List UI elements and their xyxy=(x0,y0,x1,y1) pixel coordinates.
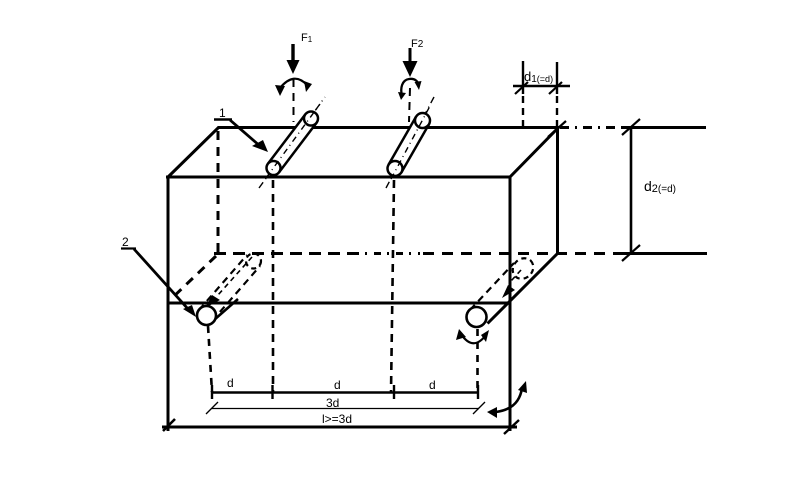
3d slash right xyxy=(473,402,485,414)
F1 rotation arc xyxy=(275,79,312,96)
slash arrow d1 right xyxy=(549,82,562,94)
label d1(=d) xyxy=(524,69,553,85)
dimension 3d line xyxy=(212,408,479,410)
d row tick 3 xyxy=(393,385,395,399)
box front-mid edge xyxy=(168,302,510,305)
svg-text:F2: F2 xyxy=(411,38,424,50)
box top-right slant edge xyxy=(509,127,559,178)
label 1 xyxy=(214,106,232,120)
lower-left roller hidden end ellipse xyxy=(246,254,261,269)
top-right extension line xyxy=(621,126,706,129)
force F1 arrow xyxy=(287,44,300,74)
slash tick at box corner (558,128) xyxy=(548,121,566,137)
drop line under roller 2 xyxy=(391,180,394,392)
slash tick bottom-left corner xyxy=(163,419,175,431)
label d third xyxy=(429,378,436,392)
label F1 xyxy=(301,32,313,44)
label l>=3d xyxy=(322,412,352,426)
d1 left extension line xyxy=(522,61,524,126)
hidden bottom-back edge (dashed horizontal) xyxy=(214,252,622,255)
d1 right extension line xyxy=(556,62,558,126)
drop line under roller 1 xyxy=(272,180,275,392)
label F2 xyxy=(411,38,424,50)
F2 action dashed line xyxy=(409,88,410,122)
box back-right vertical edge xyxy=(556,127,559,254)
svg-text:1: 1 xyxy=(219,106,226,120)
slash tick d2 bottom xyxy=(622,245,640,261)
bottom-right rotation arrow xyxy=(487,381,527,418)
svg-text:d: d xyxy=(227,376,234,390)
lower-right roller xyxy=(467,307,487,327)
hidden back-left vertical edge xyxy=(217,131,220,253)
svg-text:l>=3d: l>=3d xyxy=(322,412,352,426)
slash tick bottom-right corner xyxy=(504,420,519,434)
label d2(=d) xyxy=(644,178,676,195)
lower-left roller xyxy=(197,306,216,325)
label d first xyxy=(227,376,234,390)
lower-right roller hidden body line xyxy=(470,263,514,310)
box top-back edge xyxy=(218,126,559,129)
d row tick 4 xyxy=(477,385,479,399)
label d second xyxy=(334,378,341,392)
lower-right roller hidden end ellipse xyxy=(509,254,538,283)
label 2 leader arrow xyxy=(134,249,196,317)
svg-text:d: d xyxy=(429,378,436,392)
box bottom-right slant edge xyxy=(488,253,559,324)
box bottom edge xyxy=(162,426,517,429)
lower-left roller visible tangent xyxy=(214,299,238,320)
dimension d2 vertical line xyxy=(630,127,633,253)
lower-left roller centerline arrow xyxy=(205,257,252,308)
box front-left vertical edge xyxy=(167,176,170,431)
roller 1 body xyxy=(267,112,319,176)
drop line under lower-right roller xyxy=(476,329,479,392)
svg-text:3d: 3d xyxy=(326,396,339,410)
lower-left roller hidden body lines xyxy=(199,255,260,321)
box top-left slant edge xyxy=(167,127,219,178)
label 2 xyxy=(121,235,136,249)
svg-text:d: d xyxy=(334,378,341,392)
roller 1 centerline lower part xyxy=(259,97,325,188)
force F2 arrow xyxy=(403,48,418,77)
roller 2 centerline lower part xyxy=(386,97,434,188)
d row tick 2 xyxy=(271,385,273,399)
roller 2 centerline over body xyxy=(391,106,430,179)
top extension dash-dot line xyxy=(560,126,622,129)
lower-right roller centerline arrow xyxy=(502,270,521,298)
box front-top edge xyxy=(166,176,511,179)
lower-right roller rotation arc xyxy=(456,329,489,343)
dimension d1 line xyxy=(513,85,570,88)
label 3d xyxy=(326,396,339,410)
slash arrow d1 left xyxy=(515,82,528,94)
d row tick 1 xyxy=(211,385,213,399)
roller 1 centerline over body xyxy=(266,104,320,178)
slash tick d2 top xyxy=(622,119,640,135)
F1 action dashed line xyxy=(293,79,295,122)
box front-right vertical edge xyxy=(509,176,512,431)
drop line under lower-left roller xyxy=(208,326,212,392)
hidden bottom-left slant edge xyxy=(170,256,216,300)
bottom-right extension line xyxy=(621,252,707,255)
F2 rotation curve xyxy=(398,79,422,100)
roller 2 body xyxy=(388,113,431,176)
dimension d row line xyxy=(212,391,478,394)
3d slash left xyxy=(206,402,218,414)
label 1 leader arrow xyxy=(230,120,268,152)
svg-text:2: 2 xyxy=(122,235,129,249)
